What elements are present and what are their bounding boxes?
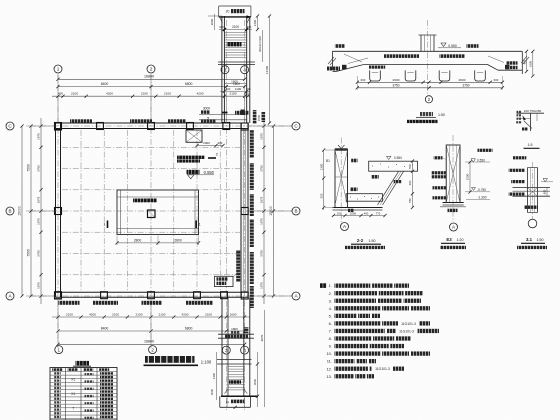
axis bubble 4 top bbox=[241, 66, 249, 74]
detail E3 top right label bbox=[478, 149, 493, 152]
landing slab lines at junction bbox=[199, 114, 247, 116]
detail 3.1 slab horizontals bbox=[513, 187, 551, 189]
right dim 1400 rotated bbox=[257, 16, 259, 30]
bottom shaft landing band upper bbox=[218, 333, 254, 335]
detail E3 centerline bbox=[452, 135, 454, 222]
head box arrowhead right bbox=[247, 15, 252, 18]
platform dim line 2800 2800 bbox=[117, 242, 199, 244]
beam labels below bottom wall bbox=[59, 301, 80, 305]
detail 2-2 right end edge bbox=[521, 51, 523, 74]
detail 3.1 bottom dim blob bbox=[524, 206, 538, 209]
axis bubble A right bbox=[292, 292, 300, 300]
stair treads (top shaft) bbox=[224, 32, 246, 34]
dim line minors (left) bbox=[40, 118, 42, 304]
interior secondary grid - horizontal dashed lines bbox=[62, 146, 240, 148]
axis bubble 2 bottom bbox=[149, 346, 157, 354]
detail E3 wall bbox=[446, 145, 460, 203]
stair direction label bbox=[228, 42, 242, 46]
bottom shaft landing band lower bbox=[217, 359, 252, 361]
axis bubble C right bbox=[292, 122, 300, 130]
columns on top wall bbox=[55, 123, 62, 130]
detail 2-2 slab top line bbox=[333, 50, 523, 52]
detail 1-1 ramp bbox=[378, 171, 399, 205]
grid line axis 2 vertical (dash-dot) bbox=[150, 74, 152, 346]
top stair shaft left wall bbox=[221, 16, 223, 123]
detail 2-2 dim row 1 bbox=[357, 81, 502, 83]
detail 3.1 right dim 600 bbox=[546, 188, 548, 197]
schedule table title bbox=[76, 361, 90, 366]
top stair shaft right wall bbox=[246, 16, 248, 123]
detail 1-1 label blobs bbox=[351, 159, 357, 163]
stair direction label bottom bbox=[229, 380, 241, 383]
schedule header blobs bbox=[52, 368, 62, 371]
section cut mark 1 left bbox=[107, 221, 109, 229]
small pit lower right bbox=[215, 276, 234, 286]
axis bubble 3 bottom bbox=[222, 346, 230, 354]
grid line axis 4 vertical (dash-dot) bbox=[244, 20, 246, 410]
axis bubble 3 top bbox=[221, 66, 229, 74]
detail E3 left labels bbox=[434, 156, 443, 159]
extension lines bottom axes bbox=[57, 297, 59, 348]
platform center column B2 bbox=[148, 210, 156, 218]
shaft top dim 2100 bbox=[219, 29, 252, 31]
outer wall - bottom (double line) bbox=[56, 291, 249, 293]
paper texture overlay bbox=[0, 0, 1, 1]
columns on bottom wall bbox=[55, 292, 62, 299]
columns on right wall bbox=[241, 123, 248, 130]
corner detail diagonal bbox=[524, 121, 532, 129]
axis bubble B right bbox=[292, 207, 300, 215]
plan title text bbox=[145, 356, 195, 363]
beam label at shaft junction bbox=[235, 111, 249, 115]
schedule col4 cell blobs bbox=[100, 372, 113, 374]
dim line total 15000 (left) bbox=[21, 126, 23, 296]
level mark 0.550 in plan bbox=[187, 170, 200, 174]
detail 1-1 wall top cap bbox=[335, 149, 348, 151]
detail E3 right dim 1500 bbox=[469, 162, 471, 192]
bottom shaft left dim bbox=[216, 352, 218, 400]
extension lines top axes bbox=[57, 75, 59, 124]
corner detail arrowhead bbox=[523, 116, 527, 121]
detail 1-1 upper slab bbox=[369, 161, 418, 171]
detail 2-2 level mark 0.550 bbox=[441, 43, 446, 47]
detail 3.1 right level mark bbox=[543, 179, 548, 182]
dim line minors (top) bbox=[52, 95, 250, 97]
extension lines left axes bbox=[26, 125, 56, 127]
detail 2-2 centerline bbox=[427, 20, 429, 94]
dim line minors (bottom) bbox=[52, 316, 250, 318]
beam label inside right wall lower bbox=[236, 250, 240, 282]
detail 2-2 break marks right bbox=[521, 56, 527, 63]
dim 1600 below bubbles bbox=[224, 83, 246, 85]
detail 1-1 wall top arrow bbox=[338, 145, 341, 149]
schedule col1 cell texts bbox=[54, 372, 61, 374]
detail E3 footing bbox=[443, 202, 464, 204]
detail E3 bottom dim blob bbox=[448, 209, 458, 212]
beam labels above top wall bbox=[70, 119, 92, 123]
grid line axis 1 vertical (dash-dot) bbox=[57, 74, 59, 346]
dim line total 16800 (top) bbox=[58, 78, 245, 80]
detail 1-1 axis bubble A bbox=[341, 223, 349, 231]
detail 2-2 break marks left bbox=[328, 57, 334, 64]
axis bubble 1 top bbox=[54, 65, 62, 73]
sump pit label (two lines) bbox=[177, 156, 205, 159]
grid line axis A horizontal (dash-dot) bbox=[30, 295, 292, 297]
detail 1-1 bottom dim bbox=[333, 215, 386, 217]
detail 2-2 hanging beams bbox=[370, 70, 381, 81]
notes block bbox=[320, 283, 327, 288]
section cut mark 2 upper bbox=[222, 112, 228, 114]
detail 2-2 label T12@200 bbox=[369, 66, 386, 69]
schedule table frame bbox=[50, 368, 117, 420]
outer wall - top (double line) bbox=[56, 122, 249, 124]
detail 2-2 title bbox=[420, 112, 433, 116]
axis bubble 2 top bbox=[147, 65, 155, 73]
grid line axis C horizontal (dash-dot) bbox=[30, 125, 292, 127]
dim line majors 7500/7500 (left) bbox=[30, 126, 32, 296]
axis bubble C left bbox=[6, 122, 14, 130]
detail 2-2 end node squares bbox=[342, 65, 347, 70]
dim row near wall 300/1100 bbox=[220, 90, 250, 92]
bottom shaft corbel flare bbox=[225, 389, 229, 394]
beam labels right of right wall (vertical) bbox=[250, 130, 254, 158]
detail 2-2 slab bottom with haunches bbox=[364, 64, 488, 66]
detail 1-1 lower slab bbox=[346, 194, 382, 202]
detail 3.1 bubble (unlabeled) bbox=[528, 219, 537, 228]
detail 2-2 axis bubble 2 bbox=[425, 96, 432, 103]
interior secondary grid - vertical dashed lines bbox=[80, 130, 82, 291]
landing line above bubbles bbox=[218, 61, 255, 63]
detail 3.1 left labels bbox=[513, 156, 527, 159]
detail 2-2 end labels bbox=[335, 44, 345, 48]
detail 2-2 left end edge bbox=[332, 51, 334, 70]
shaft corbel flares below head bbox=[220, 17, 223, 23]
detail 1-1 level 0.550 bbox=[387, 156, 392, 159]
top stair shaft head box bbox=[219, 5, 251, 7]
extension lines right axes bbox=[248, 125, 292, 127]
detail 1-1 centerline bbox=[340, 138, 342, 223]
bottom stair shaft left wall bbox=[221, 297, 223, 396]
dim line majors 8400/6800/1600 (top) bbox=[58, 86, 245, 88]
platform label text bbox=[133, 199, 157, 203]
small dim cluster right of junction bbox=[253, 110, 257, 124]
detail E3 right levels bbox=[471, 159, 476, 162]
detail 2-2 right end dims bbox=[526, 51, 528, 71]
detail 2-2 column stub bbox=[420, 35, 422, 51]
outer wall - right (double double line) bbox=[240, 123, 242, 297]
axis bubble 4 bottom bbox=[241, 346, 249, 354]
right dim 2840+2740 rotated bbox=[262, 30, 264, 62]
grid line axis 3 vertical (dash-dot) bbox=[225, 20, 227, 410]
detail 3.1 hatch bbox=[528, 188, 538, 197]
stair area dim 2000/200 bbox=[197, 145, 223, 147]
schedule col3 merged blobs bbox=[85, 373, 94, 375]
dim line minors (right) bbox=[263, 118, 265, 304]
detail 1-1 right dim 500/400/550 bbox=[412, 161, 414, 208]
corner detail verticals bbox=[530, 113, 532, 131]
axis bubble 1 bottom bbox=[55, 346, 63, 354]
grid line axis B horizontal (dash-dot) bbox=[30, 210, 292, 212]
right dim 14400 rotated bbox=[269, 16, 271, 123]
bottom stair shaft right wall bbox=[243, 297, 245, 396]
axis bubble A left bbox=[6, 292, 14, 300]
detail 2-2 rebar labels on slab bbox=[384, 54, 419, 58]
dim line total 16800 (bottom) bbox=[58, 343, 245, 345]
detail 1-1 left wall with cross bracing bbox=[334, 149, 336, 208]
bottom shaft bold base line bbox=[221, 395, 258, 397]
dim line majors 8400/6800 (bottom) bbox=[58, 330, 245, 332]
detail 2-2 dim row 2 bbox=[357, 87, 502, 89]
equipment platform inner lines bbox=[117, 196, 199, 198]
stair treads (bottom shaft) bbox=[228, 366, 244, 368]
equipment platform outer outline bbox=[117, 190, 199, 235]
detail E3 axis bubble A bbox=[450, 223, 458, 231]
detail 2-2 leader bbox=[344, 54, 362, 62]
outer wall - left (double line) bbox=[55, 123, 57, 297]
section cut mark 1 right bbox=[195, 221, 197, 229]
detail 3.1 centerline bbox=[532, 162, 534, 219]
detail 3.1 wall verticals bbox=[527, 168, 529, 213]
detail 1-1 base lines bbox=[333, 207, 383, 209]
columns on left wall bbox=[55, 123, 62, 130]
axis bubble B left bbox=[6, 207, 14, 215]
detail 1-1 left dim 1300/550 bbox=[323, 150, 325, 210]
section cut mark 2 lower bbox=[208, 157, 216, 159]
stair landing beam upper area bbox=[186, 130, 202, 142]
bottom shaft footing box bbox=[219, 396, 221, 407]
corner detail left tiny dims bbox=[517, 111, 522, 113]
bottom shaft right dim lines bbox=[257, 352, 259, 407]
corner detail top line bbox=[517, 112, 545, 114]
left dim 3000 rotated bbox=[214, 14, 216, 30]
dim line total 15000 (right) bbox=[273, 126, 275, 296]
column blob at shaft-wall junction bbox=[241, 110, 245, 116]
